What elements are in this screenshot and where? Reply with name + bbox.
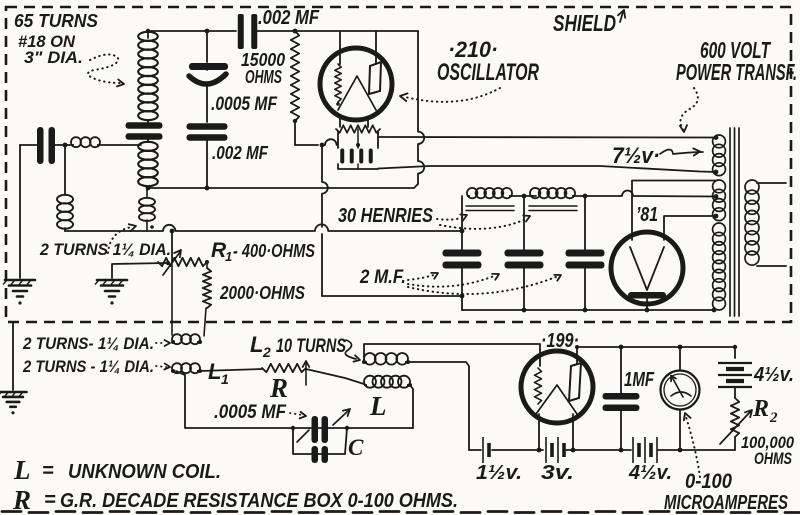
transformer secondary HV winding bbox=[713, 223, 726, 236]
svg-text:OHMS: OHMS bbox=[754, 449, 792, 468]
node bus-choke riser bbox=[460, 229, 465, 234]
leader dotted to tap bbox=[108, 227, 132, 253]
coil tank lower section bbox=[138, 142, 158, 151]
wire node-145 to bus with hop over grid wire bbox=[322, 145, 328, 227]
arrow R1 wiper bbox=[163, 252, 180, 275]
wire riser x418 with hops bbox=[418, 31, 424, 184]
svg-text:0-100: 0-100 bbox=[685, 470, 732, 493]
transformer winding leads left bbox=[714, 135, 719, 140]
svg-text:L: L bbox=[250, 332, 263, 357]
svg-text:65 TURNS: 65 TURNS bbox=[14, 11, 98, 31]
svg-text:1½v.: 1½v. bbox=[476, 462, 522, 484]
tube '199 envelope bbox=[521, 351, 593, 423]
ground shield lead bbox=[12, 322, 14, 390]
svg-text:1MF: 1MF bbox=[624, 369, 655, 391]
svg-text:.002 MF: .002 MF bbox=[212, 143, 269, 163]
wire down to coupling coil bbox=[64, 145, 66, 195]
capacitor bypass pair A bbox=[340, 149, 344, 164]
svg-text:OSCILLATOR: OSCILLATOR bbox=[437, 59, 539, 86]
coil tap tickler 2-turns bbox=[139, 198, 155, 206]
wire grid return long bbox=[148, 184, 418, 188]
tube '199 grid zigzag bbox=[535, 368, 542, 404]
svg-text:.0005 MF: .0005 MF bbox=[214, 402, 287, 423]
coil L unknown bbox=[364, 384, 367, 386]
svg-text:R: R bbox=[269, 373, 288, 403]
svg-text:4½v.: 4½v. bbox=[753, 364, 794, 386]
capacitor filter C2 2MF bbox=[523, 196, 525, 250]
wire hook to transformer bbox=[575, 191, 717, 197]
transformer primary winding bbox=[745, 180, 759, 194]
resistor R1 400 OHMS potentiometer bbox=[158, 258, 207, 266]
wire bottom tank loop bbox=[176, 371, 413, 428]
wire R to L bbox=[306, 369, 364, 384]
capacitor .002 MF top bbox=[238, 14, 244, 49]
ground G2 bbox=[97, 279, 127, 282]
transformer core bbox=[729, 128, 731, 316]
wire filament supply A bbox=[378, 136, 717, 139]
capacitor bypass pair B bbox=[359, 149, 363, 164]
wire plate top rail bbox=[577, 346, 735, 348]
svg-text:C: C bbox=[348, 435, 364, 460]
choke CH1 30 henries bbox=[467, 195, 470, 197]
wires to bypass caps bbox=[337, 131, 339, 148]
transformer secondary 7.5v winding bbox=[713, 135, 726, 148]
wire L1 to R bbox=[200, 369, 262, 371]
coil link row1 2-turns bbox=[172, 341, 175, 343]
capacitor antenna series bbox=[37, 127, 44, 164]
svg-text:G.R. DECADE RESISTANCE BOX 0-1: G.R. DECADE RESISTANCE BOX 0-100 OHMS. bbox=[60, 490, 458, 512]
capacitor .002 MF fixed bbox=[187, 123, 228, 130]
svg-text:POWER TRANSF.: POWER TRANSF. bbox=[676, 59, 797, 85]
shield dashed enclosure bbox=[6, 7, 791, 322]
page edge scan artifact bbox=[2, 512, 800, 513]
leader squiggle to L2 bbox=[345, 340, 356, 359]
svg-text:SHIELD: SHIELD bbox=[553, 10, 616, 36]
wire filter bottom bus bbox=[462, 309, 715, 311]
transformer primary leads bbox=[757, 182, 786, 184]
svg-text:OHMS: OHMS bbox=[245, 67, 282, 87]
leader to meter bbox=[686, 417, 700, 477]
wire bypass bottom bbox=[338, 164, 378, 169]
ground G3 bbox=[0, 391, 27, 394]
node filament left bbox=[320, 143, 325, 148]
coil L2 10-turns bbox=[364, 361, 367, 363]
tube '199 plate bbox=[569, 363, 581, 401]
leaders 2MF to caps bbox=[408, 275, 434, 280]
variable capacitor .0005 MF tank bbox=[189, 63, 228, 70]
battery 1.5v bbox=[482, 437, 484, 463]
svg-text:3v.: 3v. bbox=[541, 462, 574, 484]
svg-text:- 400·OHMS: - 400·OHMS bbox=[233, 241, 315, 261]
arrow R variable bbox=[305, 363, 307, 385]
node link junction bbox=[63, 143, 68, 148]
leader arrow to tank coil bbox=[88, 54, 120, 83]
arrow C variable bbox=[297, 430, 309, 442]
wire pot lead bbox=[171, 231, 173, 262]
capacitor filter C1 2MF bbox=[461, 231, 463, 250]
svg-text:R: R bbox=[752, 396, 769, 422]
wire filter bottom left bbox=[322, 295, 462, 297]
tube '81 plate bar bbox=[628, 292, 666, 299]
svg-text:L: L bbox=[13, 455, 31, 485]
svg-text:UNKNOWN COIL.: UNKNOWN COIL. bbox=[68, 461, 221, 483]
coil small link B bbox=[55, 144, 71, 146]
leader to transformer bbox=[680, 88, 697, 130]
tube '81 plate lead bbox=[646, 299, 648, 310]
ground G1 lead bbox=[19, 145, 21, 278]
arrow R2 variable bbox=[720, 412, 750, 444]
meter 0-100 microamperes bbox=[679, 347, 681, 369]
resistor 2000 OHMS bbox=[203, 268, 211, 308]
tube '10 grid zigzag bbox=[335, 64, 341, 102]
tube '10 plate lead bbox=[375, 31, 377, 63]
svg-text:=: = bbox=[42, 460, 54, 482]
capacitor 1MF bbox=[620, 347, 622, 393]
wire battery to R2 bbox=[734, 387, 736, 398]
choke CH2 30 henries bbox=[530, 195, 533, 197]
capacitor C variable .0005 bbox=[291, 426, 295, 430]
coil L1 2-turns bbox=[172, 370, 175, 372]
resistor R decade box bbox=[262, 364, 306, 372]
transformer secondary rectifier winding bbox=[713, 180, 726, 193]
leader to choke cores bbox=[437, 217, 463, 220]
svg-text:7½v·: 7½v· bbox=[612, 143, 660, 168]
leader dotted to tube bbox=[405, 88, 500, 102]
tube '10 filament bbox=[338, 76, 376, 110]
svg-text:.002 MF: .002 MF bbox=[258, 7, 320, 29]
node at top wire bbox=[205, 29, 210, 34]
svg-text:.0005 MF: .0005 MF bbox=[211, 94, 278, 115]
svg-text:2 TURNS 1¼ DIA.: 2 TURNS 1¼ DIA. bbox=[39, 240, 171, 259]
resistor 15000 OHMS bbox=[291, 31, 299, 121]
junction grid bottom bbox=[205, 186, 210, 191]
svg-text:’81: ’81 bbox=[636, 204, 658, 226]
tube '10 grid lead bbox=[339, 31, 341, 64]
tube '10 plate bbox=[369, 62, 381, 94]
svg-text:2000·OHMS: 2000·OHMS bbox=[219, 283, 305, 303]
tube '81 filament V bbox=[630, 247, 664, 290]
tube '10 oscillator envelope U1 bbox=[320, 48, 392, 120]
ground G1 bbox=[5, 279, 35, 282]
wire L2 right to meter loop bbox=[408, 362, 469, 450]
tube '199 filament leads bbox=[538, 414, 540, 450]
tube '81 filament leads bbox=[632, 181, 717, 241]
wire L right down bbox=[410, 385, 413, 428]
svg-text:4½v.: 4½v. bbox=[628, 462, 672, 484]
node choke junction bbox=[522, 194, 527, 199]
svg-text:=: = bbox=[44, 489, 56, 511]
wire tank top bbox=[148, 31, 236, 38]
tube '199 plate lead bbox=[576, 347, 578, 363]
wire antenna left bbox=[20, 144, 37, 146]
ground G2 lead bbox=[112, 263, 166, 278]
coil 65-turn tank upper bbox=[138, 32, 158, 41]
resistor R2 100000 ohms bbox=[731, 398, 739, 437]
svg-text:L: L bbox=[369, 391, 387, 421]
svg-text:2 TURNS- 1¼ DIA.: 2 TURNS- 1¼ DIA. bbox=[22, 334, 154, 353]
battery 4.5v plate B bbox=[718, 362, 752, 364]
junction coil bottom bbox=[146, 186, 151, 191]
battery 4.5v filament bbox=[632, 437, 634, 463]
svg-text:1: 1 bbox=[221, 371, 229, 387]
wire to bus bbox=[64, 228, 66, 231]
svg-text:30 HENRIES: 30 HENRIES bbox=[338, 205, 434, 227]
svg-text:3" DIA.: 3" DIA. bbox=[24, 48, 83, 67]
node resistor top bbox=[293, 29, 298, 34]
svg-text:1: 1 bbox=[225, 249, 232, 264]
coil row1 leads up bbox=[171, 262, 173, 335]
capacitor grid series in coil bbox=[126, 122, 163, 129]
wire branch down bbox=[206, 31, 208, 62]
svg-text:·199·: ·199· bbox=[541, 330, 579, 352]
svg-text:2 TURNS - 1¼ DIA.: 2 TURNS - 1¼ DIA. bbox=[22, 357, 154, 376]
wire L2 to grid '199 bbox=[364, 344, 540, 366]
tube '199 filament bbox=[536, 385, 577, 414]
wire battery bus bbox=[469, 449, 481, 451]
wire filament supply B bbox=[378, 166, 717, 172]
wire filament leads bbox=[339, 117, 341, 127]
wire riser to choke1 bbox=[461, 196, 463, 231]
wire battery top bbox=[734, 347, 736, 358]
capacitor filter C3 2MF bbox=[584, 196, 586, 250]
wire main bus lower-shield bbox=[65, 224, 463, 231]
tube '81 rectifier envelope bbox=[611, 232, 683, 304]
resistor filament hum bbox=[336, 125, 380, 133]
battery 3v bbox=[545, 437, 547, 463]
svg-text:2 M.F.: 2 M.F. bbox=[359, 267, 406, 288]
coil coupling A 2-turns bbox=[57, 195, 73, 204]
svg-text:2: 2 bbox=[262, 344, 271, 360]
svg-text:10 TURNS: 10 TURNS bbox=[276, 336, 346, 357]
svg-text:2: 2 bbox=[769, 410, 778, 426]
